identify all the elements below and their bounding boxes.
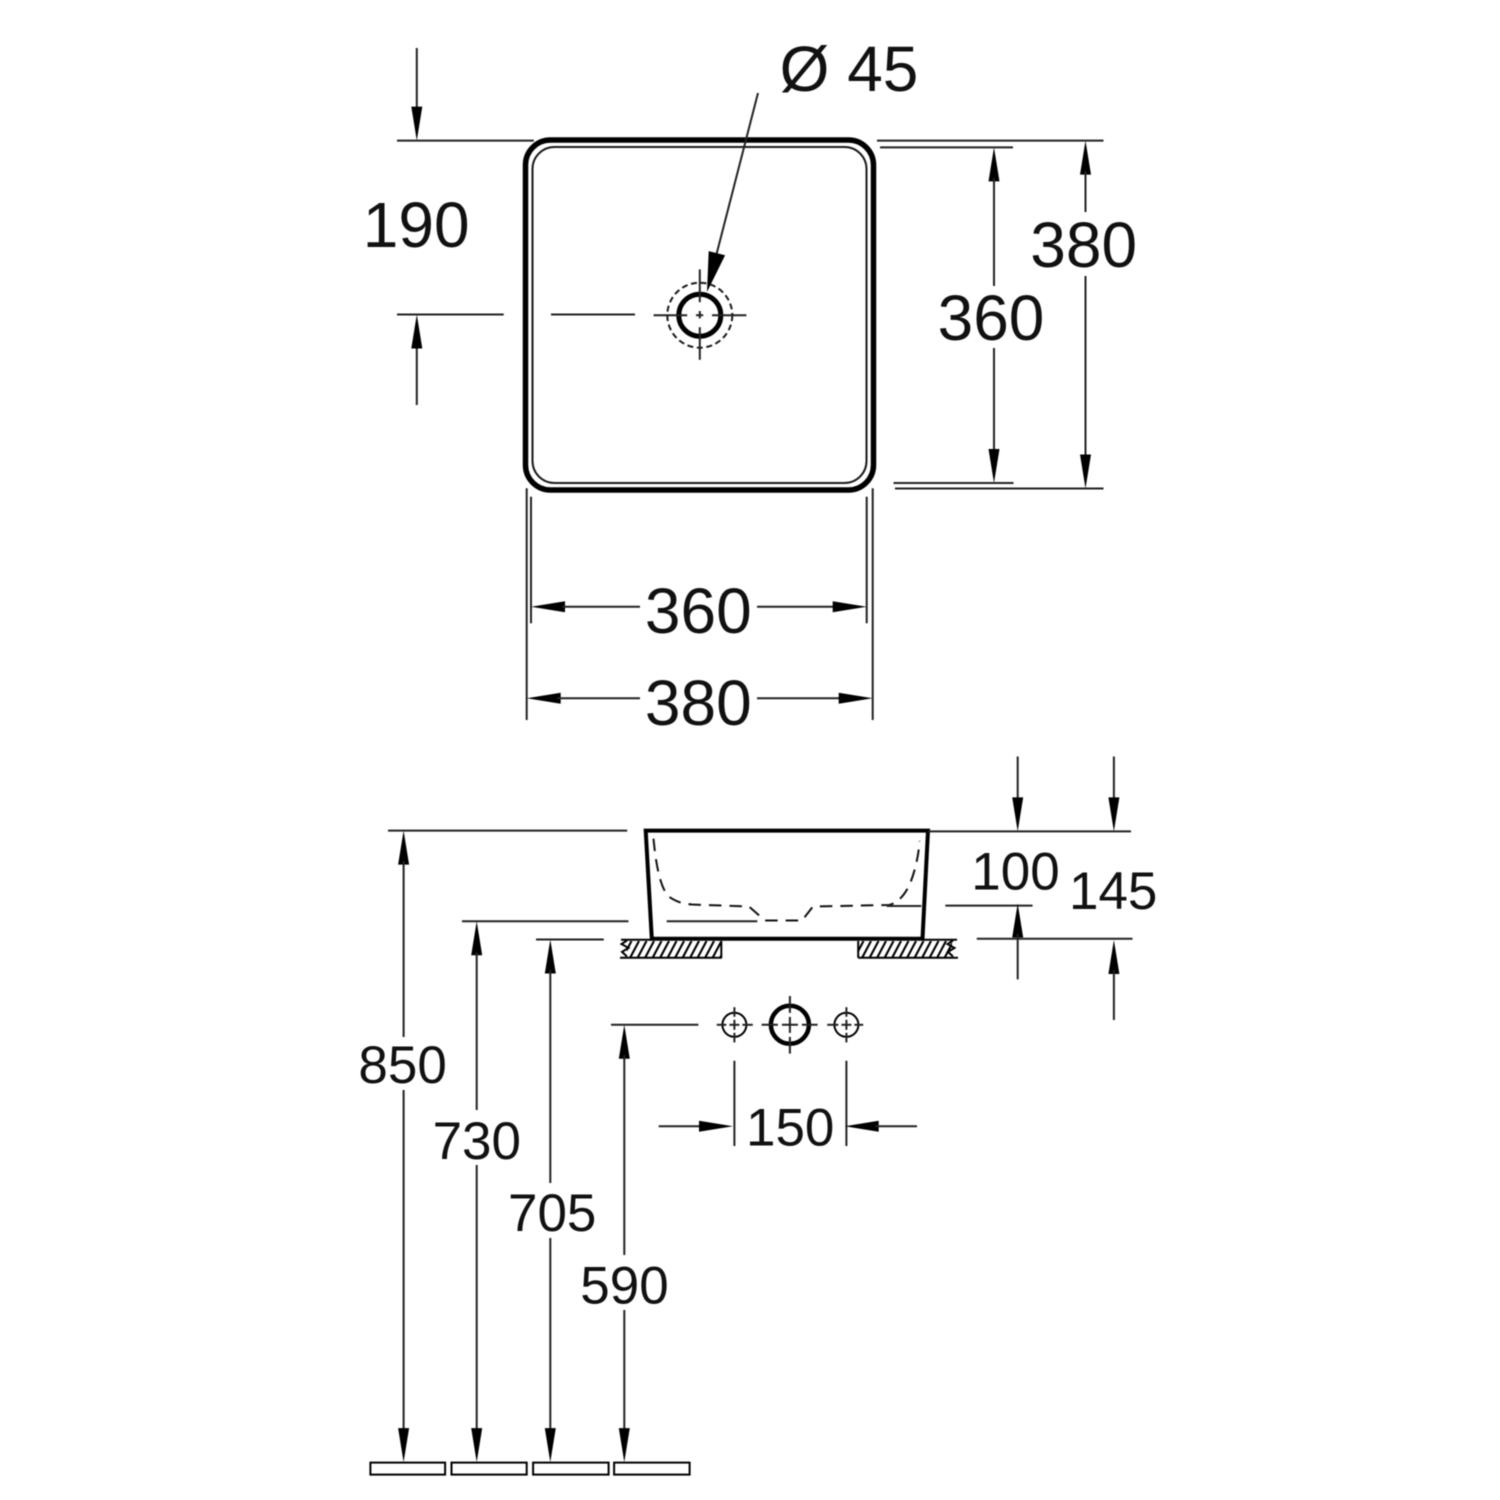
leader arrowhead bbox=[707, 251, 725, 292]
dim 360 right: bottom extension line bbox=[894, 482, 1014, 484]
dim 360 bottom: right arrowhead bbox=[833, 601, 867, 612]
dim 380 bottom: left arrowhead bbox=[527, 693, 561, 704]
floor tile 1 bbox=[370, 1463, 445, 1475]
mounting hatch right: left edge bbox=[857, 941, 859, 958]
dim 730: line upper segment bbox=[476, 952, 478, 1110]
dim 705: line lower segment bbox=[549, 1238, 551, 1431]
dim 360 right: line lower segment bbox=[993, 348, 995, 452]
dim 380 right: line lower segment bbox=[1085, 276, 1087, 458]
dim 145: top arrowhead (down) bbox=[1108, 797, 1119, 831]
bowl hidden profile (dashed) bbox=[654, 839, 920, 921]
dim 705: bottom arrowhead (down) bbox=[545, 1428, 556, 1462]
dim 150: left arrowhead (points right) bbox=[699, 1121, 733, 1132]
dim 705: line upper segment bbox=[549, 970, 551, 1183]
svg-text:100: 100 bbox=[971, 842, 1059, 901]
dim 360 right: line upper segment bbox=[993, 178, 995, 286]
svg-text:360: 360 bbox=[645, 575, 752, 647]
leader line for drain diameter bbox=[714, 93, 758, 264]
dim 850: line upper segment bbox=[403, 861, 405, 1037]
svg-text:380: 380 bbox=[645, 667, 752, 739]
svg-text:360: 360 bbox=[938, 282, 1045, 354]
drain centerline dash inside square bbox=[551, 314, 635, 316]
dim 360 bottom: left arrowhead bbox=[531, 601, 565, 612]
dim 360 right: lower arrowhead (down) bbox=[989, 449, 1000, 483]
dim 190: lower arrowhead (up) bbox=[411, 315, 422, 349]
svg-text:590: 590 bbox=[580, 1257, 668, 1316]
dim 380 bottom: right extension line bbox=[872, 488, 874, 720]
floor tile 2 bbox=[452, 1463, 527, 1475]
dim 590: line upper segment bbox=[623, 1055, 625, 1255]
dim 380 bottom: right arrowhead bbox=[839, 693, 873, 704]
dim 380 right: top extension line bbox=[877, 140, 1104, 142]
mounting hatch right: zigzag break end bbox=[948, 941, 955, 957]
dim 150: right arrowhead (points left) bbox=[845, 1121, 879, 1132]
basin outer rim (top view) bbox=[526, 140, 874, 490]
mounting hatch right: hatch lines bbox=[847, 941, 961, 958]
dim 100: bottom extension line bbox=[945, 905, 1032, 907]
svg-text:Ø 45: Ø 45 bbox=[780, 33, 919, 105]
dim 730: bottom arrowhead (down) bbox=[471, 1428, 482, 1462]
faucet crosshair vertical right bbox=[845, 1007, 847, 1042]
dim 360 bottom: line right segment bbox=[757, 606, 836, 608]
dim 100: top arrow tail bbox=[1017, 757, 1019, 801]
inner waterline left (solid) bbox=[667, 920, 758, 922]
dim 190: top extension line bbox=[397, 140, 534, 142]
faucet hole center circle bbox=[771, 1006, 809, 1044]
dim 380 right: upper arrowhead (up) bbox=[1080, 141, 1091, 175]
dim 100: top arrowhead (down) bbox=[1012, 797, 1023, 831]
faucet crosshair horizontal center circle bbox=[762, 1024, 818, 1026]
faucet crosshair vertical center bbox=[789, 996, 791, 1054]
faucet hole left circle bbox=[722, 1013, 746, 1037]
dim 100/145 shared top extension line bbox=[928, 830, 1131, 832]
dim 590: bottom arrowhead (down) bbox=[619, 1428, 630, 1462]
dim 150: right tail bbox=[875, 1125, 917, 1127]
dim 730: top extension line bbox=[462, 920, 629, 922]
dim 360 bottom: line left segment bbox=[562, 606, 640, 608]
svg-text:190: 190 bbox=[363, 189, 470, 261]
dim 590: top arrowhead (up) bbox=[619, 1025, 630, 1059]
mounting hatch right: bottom line bbox=[858, 957, 958, 959]
mounting hatch left: right edge bbox=[720, 941, 722, 958]
dim 590: line lower segment bbox=[623, 1310, 625, 1431]
drain hole outer circle (dashed) bbox=[667, 283, 732, 348]
mounting hatch right: top tail line bbox=[924, 939, 957, 941]
dim 190: upper arrow tail bbox=[416, 48, 418, 110]
extension below left faucet hole bbox=[733, 1061, 735, 1146]
faucet hole right circle bbox=[834, 1013, 858, 1037]
svg-text:705: 705 bbox=[508, 1184, 596, 1243]
floor tile 4 bbox=[614, 1463, 690, 1475]
floor tile 3 bbox=[533, 1463, 609, 1475]
svg-text:145: 145 bbox=[1069, 862, 1157, 921]
dim 145: bottom extension line bbox=[977, 938, 1133, 940]
mounting hatch left: bottom line bbox=[620, 957, 722, 959]
dim 360 bottom: left extension line bbox=[530, 497, 532, 624]
svg-text:730: 730 bbox=[433, 1112, 521, 1171]
dim 360 right: top extension line bbox=[880, 146, 1013, 148]
basin inner rim (top view) bbox=[533, 147, 867, 483]
drain crosshair vertical bbox=[699, 269, 701, 359]
mounting hatch left: zigzag break end bbox=[622, 941, 629, 957]
faucet crosshair horizontal right circle bbox=[827, 1024, 863, 1026]
faucet crosshair horizontal left circle bbox=[717, 1024, 753, 1026]
dim 850: top arrowhead (up) bbox=[398, 831, 409, 865]
dim 730: top arrowhead (up) bbox=[471, 921, 482, 955]
dim 360 right: upper arrowhead (up) bbox=[989, 147, 1000, 181]
dim 100: bottom arrow tail bbox=[1017, 934, 1019, 979]
drain centerline dash outside square bbox=[397, 314, 504, 316]
dim 590: top extension line bbox=[611, 1024, 698, 1026]
dim 145: top arrow tail bbox=[1113, 757, 1115, 801]
dim 380 bottom: line right segment bbox=[757, 697, 842, 699]
dim 150: left tail bbox=[659, 1125, 702, 1127]
dim 730: line lower segment bbox=[476, 1165, 478, 1431]
dim 705: top arrowhead (up) bbox=[545, 940, 556, 974]
dim 190: lower arrow tail bbox=[416, 345, 418, 405]
dim 380 right: line upper segment bbox=[1085, 171, 1087, 212]
drain crosshair horizontal bbox=[654, 314, 747, 316]
extension below right faucet hole bbox=[845, 1061, 847, 1146]
basin outline (front view) bbox=[646, 831, 928, 939]
mounting hatch left: hatch lines bbox=[615, 941, 729, 958]
svg-text:380: 380 bbox=[1030, 209, 1137, 281]
dim 380 bottom: left extension line bbox=[526, 488, 528, 720]
dim 850: line lower segment bbox=[403, 1090, 405, 1431]
drain hole inner circle bbox=[679, 294, 721, 336]
mounting hatch left: top tail line bbox=[621, 939, 652, 941]
svg-text:850: 850 bbox=[358, 1036, 446, 1095]
dim 380 bottom: line left segment bbox=[557, 697, 640, 699]
dim 145: bottom arrow tail bbox=[1113, 970, 1115, 1020]
dim 380 right: bottom extension line bbox=[895, 488, 1104, 490]
dim 380 right: lower arrowhead (down) bbox=[1080, 455, 1091, 489]
dim 850: top extension line bbox=[388, 830, 627, 832]
dim 190: upper arrowhead (down) bbox=[411, 107, 422, 141]
faucet crosshair vertical left bbox=[733, 1007, 735, 1042]
dim 705: top extension line bbox=[536, 939, 604, 941]
inner line right (solid) bbox=[887, 905, 922, 907]
dim 360 bottom: right extension line bbox=[866, 497, 868, 624]
dim 145: bottom arrowhead (up) bbox=[1108, 940, 1119, 974]
dim 850: bottom arrowhead (down) bbox=[398, 1428, 409, 1462]
svg-text:150: 150 bbox=[746, 1098, 834, 1157]
dim 100: bottom arrowhead (up) bbox=[1012, 904, 1023, 938]
